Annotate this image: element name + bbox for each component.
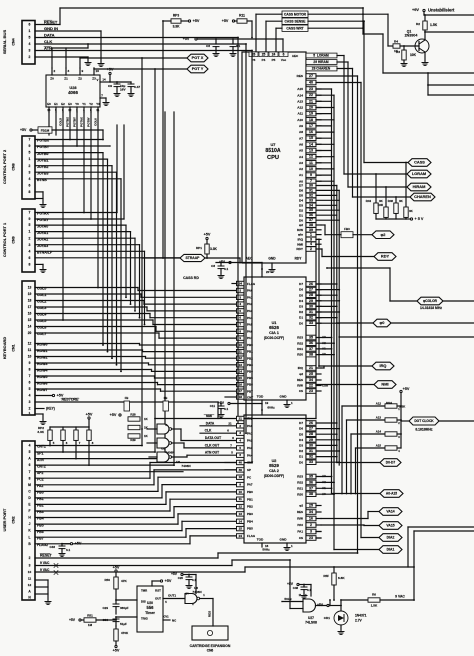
+5V pullup rail [375, 214, 377, 220]
ground serial GND [98, 62, 104, 66]
capacitor C9 10u [116, 82, 118, 84]
wires user port PC2..PB7 rows to CIA2 left pins [35, 477, 150, 479]
svg-text:25: 25 [309, 504, 313, 508]
net pennant RDY [374, 253, 396, 261]
wire bus vertical ATN IN [164, 112, 166, 459]
gate U6 7406N [185, 594, 197, 604]
svg-text:Z3: Z3 [92, 77, 96, 81]
svg-text:7: 7 [29, 470, 31, 474]
svg-text:11: 11 [96, 108, 99, 112]
resistor R2 1.5K [423, 21, 427, 30]
svg-text:12: 12 [28, 583, 32, 587]
net RESTORE [35, 401, 218, 403]
svg-text:24: 24 [239, 282, 243, 286]
wire NMI row to CIA2 [155, 418, 244, 420]
svg-text:2: 2 [29, 55, 31, 59]
svg-text:P4: P4 [262, 58, 266, 62]
svg-text:8510A: 8510A [265, 148, 281, 154]
+5V at R50 [115, 570, 117, 572]
svg-text:D2: D2 [299, 310, 303, 314]
svg-text:+5V: +5V [86, 413, 93, 417]
IC U28 4066 [46, 75, 100, 107]
svg-text:IRQ: IRQ [298, 366, 304, 370]
svg-text:DATA: DATA [206, 421, 215, 425]
svg-text:D5: D5 [299, 293, 303, 297]
net pennant A0-A15 [380, 490, 403, 498]
svg-text:29: 29 [309, 299, 313, 303]
wire CASS SENSE left to CPU P4 [266, 20, 282, 22]
wire FB to POTBX row [52, 129, 103, 131]
ground Q1 emitter [422, 61, 428, 65]
wire RES pin 27 stub [316, 75, 358, 77]
svg-text:19: 19 [28, 292, 32, 296]
wire CASS MOTOR left to CPU P3 [256, 13, 282, 15]
svg-text:D3: D3 [299, 444, 303, 448]
IC U1 6526 CIA 1 [244, 277, 306, 400]
svg-text:A14: A14 [297, 93, 303, 97]
svg-text:D0-D7: D0-D7 [386, 461, 396, 465]
svg-text:21: 21 [239, 417, 243, 421]
svg-text:C46: C46 [50, 545, 56, 549]
svg-text:P5: P5 [272, 58, 276, 62]
wire Q1 emitter to ground [424, 52, 426, 61]
wire to lower right edge y73 [363, 33, 383, 35]
svg-text:32: 32 [309, 316, 313, 320]
svg-text:3: 3 [310, 530, 312, 534]
svg-text:GND: GND [268, 257, 276, 261]
wire 4066 Y3 drop to COL0 row [97, 112, 99, 288]
wire CN8 pin8 ground [35, 198, 43, 200]
svg-text:TMR: TMR [141, 589, 147, 593]
svg-text:LORAM: LORAM [412, 171, 426, 176]
svg-text:COL5: COL5 [59, 118, 63, 126]
svg-text:A9: A9 [299, 124, 303, 128]
svg-text:6: 6 [283, 53, 285, 57]
svg-text:32: 32 [309, 193, 313, 197]
wire wrap corner lower to right edge [414, 530, 474, 532]
svg-text:D6: D6 [299, 189, 303, 193]
svg-text:φ2: φ2 [299, 223, 303, 227]
svg-text:PA1: PA1 [247, 431, 253, 435]
net pennant DIA2 [379, 534, 402, 542]
svg-text:GND: GND [280, 395, 288, 399]
wire 4066 Z2 to POT X line [79, 58, 81, 68]
svg-text:DIS: DIS [141, 600, 146, 604]
svg-text:10K: 10K [410, 53, 417, 57]
svg-text:φ2: φ2 [299, 372, 303, 376]
svg-text:φ0: φ0 [380, 320, 385, 325]
svg-text:R5F: R5F [323, 574, 329, 578]
net pennant NMI [374, 381, 396, 389]
svg-text:CASS RD: CASS RD [183, 276, 199, 280]
svg-text:18: 18 [239, 475, 243, 479]
svg-text:20: 20 [309, 106, 313, 110]
resistor R4 1K (base) [393, 44, 400, 48]
svg-text:11: 11 [239, 350, 242, 354]
svg-text:PB1: PB1 [247, 497, 253, 501]
svg-text:3: 3 [68, 69, 70, 73]
svg-text:A8: A8 [299, 130, 303, 134]
svg-text:13: 13 [309, 149, 313, 153]
net pennant CHAREN [410, 193, 435, 201]
svg-text:CIA 1: CIA 1 [269, 330, 280, 335]
wire address trunk line 1 [331, 89, 333, 494]
wire CASS WRT left to CPU P5 [276, 27, 282, 29]
svg-text:CNT: CNT [247, 461, 253, 465]
svg-text:38: 38 [309, 353, 313, 357]
svg-text:32: 32 [309, 455, 313, 459]
svg-text:11: 11 [28, 577, 32, 581]
wire serial DATA [35, 37, 238, 39]
svg-text:R50: R50 [105, 578, 111, 582]
svg-text:8: 8 [29, 190, 31, 194]
resistor R45 3K pullup [385, 187, 387, 207]
gate U27 74LS08 AND [303, 599, 316, 612]
svg-text:27: 27 [309, 74, 313, 78]
svg-text:6: 6 [29, 256, 31, 260]
svg-text:Y1: Y1 [82, 102, 86, 106]
svg-text:11: 11 [309, 161, 313, 165]
svg-text:13: 13 [28, 286, 32, 290]
4066 bottom pins [48, 107, 50, 112]
svg-text:CS: CS [299, 389, 303, 393]
svg-text:POT X: POT X [192, 55, 204, 60]
svg-text:PA3: PA3 [247, 446, 253, 450]
wire ATN OUT row to CIA2 [187, 454, 244, 456]
resistor pack RP2 3.3K [50, 426, 89, 428]
svg-text:D5: D5 [299, 194, 303, 198]
svg-text:3: 3 [29, 243, 31, 247]
svg-text:3: 3 [29, 49, 31, 53]
net pennant D0-D7 [380, 459, 401, 467]
svg-text:D7: D7 [299, 282, 303, 286]
svg-text:4: 4 [29, 249, 31, 253]
wire cassette stub right edge y95 [428, 94, 474, 96]
svg-text:0.1: 0.1 [224, 407, 228, 411]
wire STRAAP row to CPU [142, 257, 180, 259]
svg-text:R/W: R/W [297, 384, 303, 388]
svg-text:36: 36 [309, 480, 313, 484]
svg-text:IRQ: IRQ [380, 363, 387, 368]
svg-text:D4: D4 [299, 299, 303, 303]
svg-text:36: 36 [309, 213, 313, 217]
svg-text:RES: RES [208, 611, 212, 617]
svg-text:R3: R3 [396, 50, 400, 54]
net pennant DOT CLOCK [409, 417, 439, 425]
wire 4066 E1 drop [55, 112, 57, 135]
svg-text:A3: A3 [299, 161, 303, 165]
svg-text:+5V: +5V [165, 579, 172, 583]
svg-text:3.3K: 3.3K [210, 247, 218, 251]
svg-text:+5V: +5V [113, 649, 120, 653]
svg-text:FB: FB [164, 396, 168, 400]
svg-text:1M: 1M [88, 623, 93, 627]
svg-text:15: 15 [239, 527, 243, 531]
svg-text:6: 6 [29, 183, 31, 187]
svg-text:17: 17 [239, 389, 243, 393]
svg-text:60Hz: 60Hz [267, 406, 275, 410]
svg-text:TRIG: TRIG [141, 617, 149, 621]
svg-text:C20: C20 [178, 576, 184, 580]
wire POTBX row [35, 139, 103, 141]
IC U2 8529 CIA 2 [244, 415, 306, 543]
svg-text:35: 35 [309, 336, 313, 340]
CIA2 left CNT SP stubs [225, 462, 237, 464]
wire 9VAC bottom net [341, 599, 368, 601]
svg-text:0.47: 0.47 [134, 85, 140, 89]
svg-text:470K: 470K [121, 631, 129, 635]
svg-text:33: 33 [309, 321, 313, 325]
resistor R46 3K pullup [395, 197, 397, 203]
svg-text:F: F [29, 509, 31, 513]
svg-text:10: 10 [28, 570, 32, 574]
+5V at RP1 [206, 240, 208, 244]
svg-text:PA2: PA2 [247, 439, 253, 443]
svg-text:6: 6 [29, 381, 31, 385]
556 CV NC stub [163, 619, 170, 621]
svg-text:SP: SP [247, 468, 251, 472]
svg-text:SERIAL BUS: SERIAL BUS [2, 30, 7, 55]
svg-text:24: 24 [272, 53, 276, 57]
svg-text:37: 37 [309, 347, 313, 351]
svg-text:15: 15 [28, 318, 32, 322]
svg-text:D6: D6 [299, 427, 303, 431]
wire CASS WRT right [308, 27, 363, 29]
svg-text:23: 23 [309, 389, 313, 393]
svg-text:PB0: PB0 [247, 490, 253, 494]
svg-text:TOD: TOD [257, 538, 264, 542]
svg-text:39: 39 [309, 228, 313, 232]
wire 4066 Y1 drop to POTBX [69, 112, 71, 140]
svg-text:5: 5 [29, 450, 31, 454]
wires keyboard ROW rows to CIA1 PB pins [35, 343, 140, 345]
svg-text:2: 2 [54, 69, 56, 73]
capacitor C46 0.1 at FLAG2 [61, 544, 63, 546]
wires D7-D0 stubs merge into data trunk [316, 185, 337, 187]
svg-text:4: 4 [29, 394, 31, 398]
svg-text:A15: A15 [297, 87, 303, 91]
svg-text:1: 1 [29, 157, 31, 161]
wires keyboard COL rows to CIA1 PA pins [35, 287, 138, 289]
svg-text:22: 22 [309, 93, 313, 97]
connector CN8 CONTROL PORT 2 [22, 136, 35, 199]
wire R11 to CLK net [247, 20, 252, 22]
wire CN2 ground ladder [35, 579, 48, 581]
net pennant STRAAP [180, 254, 205, 261]
wires JOYA0-3 BTNA to CIA1 PA rows [35, 224, 126, 226]
svg-text:26: 26 [309, 282, 313, 286]
svg-text:11: 11 [239, 497, 242, 501]
svg-text:20: 20 [266, 270, 270, 274]
gate U8 7406N c [157, 452, 169, 462]
svg-text:+5V: +5V [222, 19, 229, 23]
wire 4066 Z0 Z1 joining [51, 48, 53, 68]
svg-text:D1: D1 [299, 455, 303, 459]
svg-text:E2: E2 [61, 102, 65, 106]
svg-text:OUT1: OUT1 [168, 594, 176, 598]
svg-text:RST: RST [155, 589, 161, 593]
svg-text:4: 4 [29, 444, 31, 448]
resistor R44 3K pullup [375, 174, 377, 203]
IC U20 556 Timer [137, 586, 163, 632]
svg-text:CR1: CR1 [324, 616, 330, 620]
svg-text:CSR: CSR [322, 383, 328, 387]
svg-text:21: 21 [228, 421, 232, 425]
svg-text:A12: A12 [376, 402, 382, 406]
ground CN8 [40, 203, 46, 207]
svg-text:POTAY: POTAY [87, 117, 91, 126]
net label (KEY) [35, 408, 44, 410]
wires user port serial handshake rows to bus verticals [35, 445, 142, 447]
wire 4066 Y1 drop POTAX [83, 112, 85, 213]
svg-text:18: 18 [309, 118, 313, 122]
svg-text:FB3: FB3 [344, 227, 350, 231]
svg-text:Z0: Z0 [50, 77, 54, 81]
capacitor C36 51uF [115, 617, 117, 619]
wires CIA1 D stubs join data trunk [316, 283, 337, 285]
resistor R55 470K to +5V [115, 626, 117, 629]
svg-text:+5V: +5V [75, 542, 82, 546]
svg-text:23: 23 [309, 87, 313, 91]
wire U6 out to cartridge RES [200, 598, 213, 600]
svg-text:CASS SENSE: CASS SENSE [285, 20, 307, 24]
connector CN9 CONTROL PORT 1 [22, 209, 35, 272]
svg-text:50Hz: 50Hz [284, 597, 292, 601]
svg-text:23: 23 [309, 536, 313, 540]
svg-text:DATA OUT: DATA OUT [205, 436, 221, 440]
svg-text:5: 5 [29, 151, 31, 155]
svg-text:OUT: OUT [155, 597, 161, 601]
svg-text:21: 21 [309, 99, 313, 103]
svg-text:RDY: RDY [381, 254, 390, 259]
svg-text:3: 3 [29, 400, 31, 404]
wire RP3 to CASS RD vertical [163, 20, 171, 22]
svg-text:RDY: RDY [295, 257, 303, 261]
svg-text:A0: A0 [322, 492, 326, 496]
svg-text:8: 8 [29, 368, 31, 372]
svg-text:D0: D0 [299, 460, 303, 464]
svg-text:14: 14 [28, 325, 32, 329]
svg-text:3: 3 [29, 170, 31, 174]
svg-text:(KEY): (KEY) [46, 407, 55, 411]
svg-text:POT Y: POT Y [192, 66, 204, 71]
svg-text:PA0: PA0 [247, 424, 253, 428]
svg-text:3.3K: 3.3K [37, 430, 44, 434]
svg-text:PA0: PA0 [297, 523, 303, 527]
IC U7 8510A CPU [242, 52, 306, 263]
svg-text:7: 7 [29, 138, 31, 142]
svg-text:+5V: +5V [204, 233, 211, 237]
svg-text:RS0: RS0 [297, 492, 303, 496]
svg-text:5: 5 [29, 36, 31, 40]
svg-text:0.1: 0.1 [307, 588, 311, 592]
svg-text:16: 16 [28, 312, 32, 316]
svg-text:33: 33 [309, 460, 313, 464]
svg-text:FB: FB [125, 396, 129, 400]
svg-text:7406N: 7406N [192, 590, 202, 594]
svg-text:10: 10 [239, 490, 243, 494]
svg-text:A2: A2 [299, 167, 303, 171]
ground CN2 [45, 600, 51, 604]
svg-text:16: 16 [309, 517, 313, 521]
wire +9V rail to right edge [423, 12, 425, 15]
svg-text:30: 30 [309, 443, 313, 447]
svg-text:9 VAC: 9 VAC [395, 595, 405, 599]
svg-text:38: 38 [309, 492, 313, 496]
resistor R28 1K [128, 417, 140, 421]
svg-text:36: 36 [309, 341, 313, 345]
svg-text:φCOLOR: φCOLOR [423, 299, 438, 303]
svg-text:12: 12 [309, 155, 313, 159]
wire CN1 ground [42, 414, 44, 420]
svg-text:CIA 2: CIA 2 [269, 468, 280, 473]
svg-text:2: 2 [29, 164, 31, 168]
wire serial CLK drop to CIA2 [245, 44, 247, 433]
svg-text:CLK OUT: CLK OUT [205, 443, 219, 447]
svg-text:D3: D3 [299, 203, 303, 207]
svg-text:R6: R6 [372, 593, 376, 597]
wire CLK OUT row to CIA2 [184, 447, 244, 449]
svg-text:8.1818MHz: 8.1818MHz [415, 428, 433, 432]
svg-text:1: 1 [310, 233, 312, 237]
svg-text:(DD00-DDFF): (DD00-DDFF) [264, 474, 284, 478]
svg-text:VA15: VA15 [386, 524, 394, 528]
svg-text:C8: C8 [211, 264, 215, 268]
svg-text:A3: A3 [322, 474, 326, 478]
svg-text:D3: D3 [299, 305, 303, 309]
svg-text:φin: φin [298, 233, 303, 237]
svg-text:A15: A15 [376, 444, 382, 448]
svg-text:28 CHAREN: 28 CHAREN [312, 67, 331, 71]
wire U27 output [316, 605, 331, 607]
svg-text:556: 556 [147, 605, 155, 610]
resistor R30 1K [128, 425, 140, 429]
svg-text:GND: GND [280, 538, 288, 542]
svg-text:HIRAM: HIRAM [413, 184, 426, 189]
svg-text:Z2: Z2 [78, 77, 82, 81]
capacitor C7 at CPU Vcc [232, 39, 234, 44]
svg-text:DATA: DATA [44, 33, 55, 38]
svg-text:R51: R51 [87, 614, 93, 618]
svg-text:13: 13 [47, 108, 51, 112]
connector CN1 KEYBOARD [22, 281, 35, 415]
svg-text:E1: E1 [54, 102, 58, 106]
wire 556 OUT to gate U6 [163, 598, 185, 600]
svg-text:Y0: Y0 [75, 102, 79, 106]
svg-text:D5: D5 [299, 432, 303, 436]
wire DATA row to CIA2 [200, 425, 244, 427]
resistor R11 3.3K [237, 19, 247, 23]
svg-text:A6: A6 [299, 142, 303, 146]
svg-text:1.5K: 1.5K [371, 604, 378, 608]
svg-text:A11: A11 [297, 112, 303, 116]
svg-text:Y3: Y3 [96, 102, 100, 106]
svg-text:4066: 4066 [68, 90, 78, 95]
svg-text:3: 3 [310, 237, 312, 241]
wire serial CLK [35, 43, 246, 45]
svg-text:38: 38 [309, 223, 313, 227]
svg-text:D1: D1 [299, 213, 303, 217]
svg-text:A12: A12 [297, 106, 303, 110]
svg-text:CN2: CN2 [12, 516, 16, 523]
svg-text:27: 27 [309, 288, 313, 292]
svg-text:39: 39 [239, 468, 243, 472]
svg-text:30: 30 [309, 184, 313, 188]
svg-text:21: 21 [309, 366, 313, 370]
capacitor C29 360uF [113, 604, 119, 607]
svg-text:+5V: +5V [403, 387, 410, 391]
svg-text:POTBY: POTBY [73, 117, 77, 127]
